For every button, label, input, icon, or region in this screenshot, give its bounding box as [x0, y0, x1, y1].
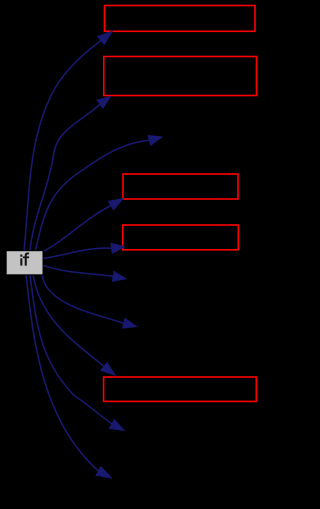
red box node3: [123, 174, 238, 199]
red box node8: [104, 377, 257, 401]
edge if->node9: [30, 275, 124, 431]
label "if": [20, 253, 29, 266]
red box node4: [123, 225, 239, 250]
edge if->node4: [43, 199, 123, 252]
edge if->node3: [35, 136, 162, 251]
edge if->node2: [30, 97, 111, 251]
edge if->node8: [33, 275, 115, 376]
edge if->node10: [26, 275, 112, 478]
red box node2: [104, 57, 257, 96]
node: if (current, gray): [6, 251, 43, 275]
edge if->node1: [24, 32, 112, 251]
edge if->node7: [42, 273, 137, 329]
edge if->node6: [43, 265, 126, 281]
edge if->node5: [43, 243, 124, 258]
red box node1: [105, 6, 256, 32]
